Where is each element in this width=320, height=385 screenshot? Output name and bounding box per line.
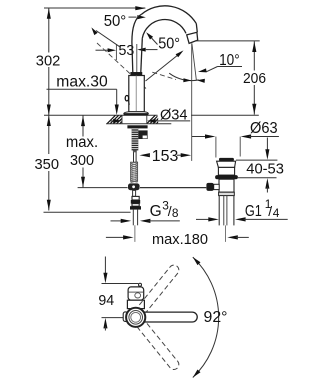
dimension max30 text [56, 73, 108, 90]
braided hose [131, 162, 138, 183]
deck top line [44, 114, 259, 116]
svg-text:G1: G1 [245, 203, 262, 220]
supply pipe [133, 210, 137, 242]
dimension 53 ext lines [116, 44, 136, 73]
dimension diam63 text [250, 120, 278, 137]
dimension 94 line [103, 257, 107, 331]
dimension 206 text [243, 70, 266, 87]
waste lever [206, 183, 219, 191]
deck cross-section hatch [106, 115, 171, 123]
mounting bracket [138, 130, 147, 139]
label 50deg left arrow [129, 15, 146, 19]
waste nut [219, 192, 235, 195]
spout gooseneck [132, 6, 197, 73]
swivel leader arrow left [91, 27, 120, 47]
top view pin [139, 283, 142, 286]
dimension 4053 ext [236, 160, 277, 178]
svg-text:153: 153 [152, 148, 179, 165]
dimension diam63 [192, 134, 279, 138]
dimension diam34 text [158, 105, 192, 124]
svg-text:4: 4 [273, 206, 280, 220]
waste tailpipe [219, 196, 234, 242]
dimension diam34 [110, 119, 190, 123]
label 50deg left text [104, 13, 127, 30]
svg-text:94: 94 [98, 292, 114, 309]
svg-text:Ø63: Ø63 [250, 120, 278, 137]
dimension max300 text [66, 134, 98, 169]
extension line spout top [44, 6, 146, 10]
threaded shank [132, 128, 139, 150]
waste cap [219, 158, 234, 161]
svg-text:max.30: max.30 [56, 73, 108, 90]
outlet tilted line [192, 43, 197, 80]
label 50deg right text [158, 35, 180, 52]
top view extension line lower [102, 317, 127, 319]
angle arc 10deg [169, 73, 205, 83]
base flange [124, 112, 149, 116]
swivel collar [131, 72, 142, 75]
waste o-ring [215, 175, 238, 179]
dimension max180 [106, 235, 249, 239]
dimension 302 text [36, 52, 61, 69]
handle knob [125, 96, 129, 105]
svg-text:350: 350 [35, 156, 60, 173]
dimension G38 text [150, 198, 179, 220]
svg-text:Ø34: Ø34 [160, 106, 188, 123]
svg-text:/: / [268, 203, 272, 219]
svg-text:8: 8 [172, 206, 179, 220]
dimension 153 [139, 153, 191, 157]
dimension 350 text [35, 156, 60, 173]
dimension 350 line [47, 115, 51, 210]
swung spout dashed lower [132, 314, 179, 369]
connector tube [133, 150, 137, 162]
extension line pipe bottom [44, 211, 131, 213]
svg-text:92°: 92° [204, 309, 228, 326]
dimension diam63 ext [216, 137, 240, 158]
extension line outlet [196, 40, 260, 42]
svg-text:max.: max. [66, 134, 98, 151]
swivel dashed line left [97, 43, 146, 89]
dimension G114 arrows [196, 217, 288, 221]
waste upper body [218, 167, 234, 175]
label 92deg text [204, 309, 228, 326]
dimension 53 text [119, 42, 135, 59]
shut-off valve [130, 196, 141, 209]
svg-text:300: 300 [70, 152, 94, 169]
top view extension line upper [102, 283, 139, 285]
pop-up rod [78, 187, 207, 189]
dimension 94 text [98, 292, 114, 309]
label 10deg text [219, 52, 240, 69]
svg-text:50°: 50° [158, 35, 180, 52]
svg-text:max.180: max.180 [152, 231, 208, 248]
angle arc 92deg [193, 257, 219, 377]
label 10deg leader [198, 67, 242, 73]
svg-text:40-53: 40-53 [246, 160, 284, 177]
valve tube [133, 190, 136, 196]
swivel leader right [146, 50, 184, 81]
spout aerator [187, 32, 198, 43]
label 50deg right arrow [146, 32, 157, 44]
outlet vertical reference [191, 43, 193, 160]
svg-text:302: 302 [36, 52, 61, 69]
svg-text:10°: 10° [219, 52, 240, 69]
svg-text:G: G [150, 203, 162, 220]
tee ball joint [128, 183, 140, 190]
svg-text:50°: 50° [104, 13, 127, 30]
swung spout dashed upper [132, 265, 179, 320]
waste flange [217, 161, 236, 167]
dimension 4053 text [246, 160, 284, 177]
dimension 302 line [47, 8, 51, 115]
dimension max30 line [47, 89, 119, 115]
dimension max300 line [81, 115, 85, 187]
faucet body [129, 76, 145, 112]
dimension max180 text [152, 231, 208, 248]
top view spout [135, 312, 197, 322]
dimension 206 line [252, 41, 256, 114]
top view left nub [123, 312, 128, 322]
svg-text:206: 206 [243, 70, 266, 87]
dimension G114 text [245, 197, 280, 220]
top view hub [126, 308, 145, 327]
swivel dashed line right [152, 72, 176, 79]
top view neck [127, 300, 144, 308]
dimension G38 arrows [111, 219, 180, 223]
top view handle [128, 287, 144, 300]
dimension 4053 arrows [265, 138, 269, 193]
dimension 153 text [152, 148, 179, 165]
mounting nut band [127, 125, 147, 128]
dimension 53 arrows [96, 48, 158, 53]
waste lower body [219, 179, 234, 192]
